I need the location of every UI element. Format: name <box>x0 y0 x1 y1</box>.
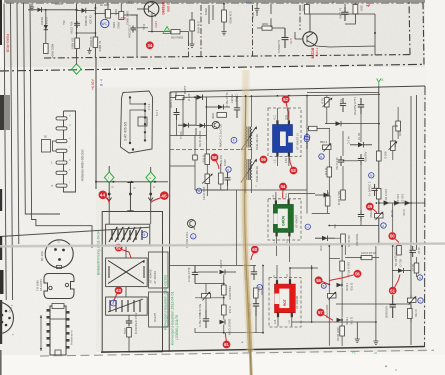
coil pins red <box>276 280 278 284</box>
tan stain halo <box>244 70 250 352</box>
wire v x223.8 <box>223 275 225 333</box>
wire v x392.7 <box>392 203 394 287</box>
scan edge mark 7 <box>0 350 2 375</box>
wire v x307 <box>306 96 308 191</box>
wire main h y97 <box>170 95 380 98</box>
resistor R705 <box>193 155 198 160</box>
red terminal 49 <box>366 203 374 211</box>
red terminal 60 <box>251 246 259 254</box>
potentiometer R702 <box>328 294 337 299</box>
wire h y258 left <box>329 258 340 260</box>
wire v x196 <box>195 97 197 135</box>
resistor R909b <box>190 20 195 31</box>
IC pins left <box>47 309 51 312</box>
wire bus line 2 <box>11 4 13 301</box>
diode D711 <box>324 193 330 198</box>
potentiometer R704 <box>408 298 417 303</box>
wire h y33 <box>77 32 96 34</box>
left module box <box>102 212 162 352</box>
blue point 8 <box>319 154 324 159</box>
dashed box green coil <box>268 199 301 240</box>
wire v x411 <box>410 96 412 345</box>
resistor R906 <box>93 37 98 48</box>
connector key notch <box>138 117 147 126</box>
diode D708b <box>220 320 226 325</box>
green warning triangle <box>163 27 171 34</box>
potentiometer R708b <box>375 214 384 219</box>
blue point 5 <box>142 232 148 238</box>
module left edge <box>168 92 171 352</box>
top partition chain x300 <box>299 5 301 30</box>
node dot x76 <box>76 32 78 34</box>
ground 3 <box>222 29 227 35</box>
connector pin 2 <box>56 127 67 130</box>
wire main vertical x96 <box>95 57 97 189</box>
resistor R706a <box>205 154 210 165</box>
wire v x311.7 <box>311 265 313 322</box>
IC top small outline <box>52 304 64 309</box>
capacitor C707 <box>358 210 364 221</box>
sub partition line <box>170 149 252 151</box>
connector pin 6 <box>56 171 67 174</box>
scan edge mark 4 <box>0 236 2 260</box>
dashed box red coil <box>269 278 301 328</box>
wire v x137 transistor down <box>137 15 138 57</box>
capacitor C713 <box>410 246 416 257</box>
wire red coil feeds <box>277 265 318 327</box>
wire h y213 right <box>312 213 330 215</box>
transformer TR2 coils <box>246 159 247 180</box>
red wire from 58 <box>216 161 219 169</box>
plug node R <box>149 193 152 196</box>
resistor R913 <box>353 5 358 15</box>
red wire from 60 <box>251 253 254 260</box>
ground symbol G2 <box>373 322 378 345</box>
transistor T903 BC238 <box>303 32 317 46</box>
blue point 10 <box>369 173 374 178</box>
middle column T <box>127 183 134 211</box>
variable inductor arrows <box>109 227 141 242</box>
coil ROT <box>275 284 296 313</box>
green diamond node L2 <box>104 172 114 183</box>
inner partition left column boxes <box>149 252 169 288</box>
resistor R911 horizontal <box>262 26 272 30</box>
wire cluster verticals <box>207 164 228 190</box>
capacitor C772 <box>340 98 346 112</box>
tan stain tail <box>250 350 251 375</box>
tan stain body <box>244 70 250 352</box>
top-left circuit: wire h y9.5 <box>28 9 77 11</box>
resistor R722 <box>396 121 401 131</box>
resistor R910 <box>222 10 227 22</box>
wire bus line 3 <box>17 4 19 245</box>
capacitor C769 <box>74 21 80 28</box>
wire subbox links <box>126 245 129 319</box>
ground symbol <box>30 4 34 10</box>
node dots module <box>328 202 330 204</box>
wire h mid top strip <box>131 15 149 28</box>
capacitor C738 electrolytic <box>253 296 259 316</box>
wire pins into box <box>109 212 151 225</box>
blue point Q <box>226 167 231 172</box>
inner partition left column box2 <box>149 292 169 327</box>
blue point N <box>417 275 422 280</box>
wire v x342 <box>341 246 343 346</box>
DIN connector partial left <box>0 302 14 334</box>
red wire from 57 <box>324 315 334 321</box>
capacitor C710 <box>338 156 344 166</box>
wire v x206 <box>205 97 207 140</box>
connector pin 3 <box>56 140 67 143</box>
diode D37 <box>395 201 401 206</box>
diode D707 <box>218 105 224 110</box>
paper specks bottom right <box>385 365 387 367</box>
diode D714 <box>337 318 343 323</box>
wire h y160 <box>343 160 358 162</box>
blue point F <box>231 137 237 143</box>
resistor R724 <box>325 196 330 206</box>
red wire from 49 <box>373 209 378 214</box>
wire h y190 long <box>195 189 307 191</box>
wire h y332.7 <box>195 316 263 333</box>
red wire from 55 <box>322 282 329 285</box>
potentiometer R504 <box>323 145 332 150</box>
node dot <box>76 9 78 11</box>
green node K <box>377 79 381 87</box>
wire to diamond <box>76 57 78 65</box>
wire h y135 <box>170 135 206 137</box>
coil pins green <box>275 200 277 204</box>
capacitor C709 electrolytic <box>390 295 396 318</box>
red wire from 53 <box>290 158 293 168</box>
top section outer right chain <box>423 0 424 65</box>
dimension arrow <box>40 315 42 351</box>
resistor R905 <box>171 30 180 34</box>
wire emitter right <box>310 14 375 55</box>
wire r724 <box>327 190 329 213</box>
transformer T712 <box>110 300 140 312</box>
wire v x416.5 <box>416 95 418 250</box>
transistor T901 <box>137 8 144 10</box>
wire h y128.5 <box>307 128 330 130</box>
plug node L <box>108 193 111 196</box>
blue point U <box>305 224 310 229</box>
svg-text:B - 4: B - 4 <box>100 79 104 86</box>
wire v x379 long <box>378 86 380 245</box>
resistor R719 <box>341 234 346 245</box>
top partition chain x252 <box>252 5 254 56</box>
red terminal 63 <box>115 287 123 295</box>
transistor T702 <box>188 220 196 228</box>
capacitor C777 <box>203 310 209 328</box>
resistor R903 <box>119 12 124 20</box>
wire top h <box>307 4 355 25</box>
wire h y322 <box>312 321 376 323</box>
red wire from 56 <box>330 275 355 281</box>
resistor R718a <box>222 305 227 315</box>
resistor R716 <box>340 261 345 271</box>
wire v x307 lower <box>306 190 308 214</box>
red terminal 57 <box>317 309 325 317</box>
wire pair x210 <box>209 5 213 24</box>
DIN connector C <box>45 240 73 268</box>
green diamond node L1 <box>146 172 156 183</box>
wire v x361 mid <box>360 186 362 226</box>
tuner sub-box 3 <box>106 297 148 315</box>
resistor R718b <box>254 288 259 298</box>
wire h y13 <box>95 14 137 16</box>
ground symbol G1 <box>355 322 360 343</box>
node dot <box>94 7 96 9</box>
ground 4 <box>255 5 260 12</box>
diode D901 <box>38 8 42 13</box>
top section paper tint <box>4 0 425 67</box>
resistor R718c <box>340 326 345 336</box>
coil pins <box>276 120 278 124</box>
wire h y265 <box>170 265 256 267</box>
connector pin 4 bracket <box>53 141 57 151</box>
blue point B <box>257 285 262 290</box>
resistor R912 <box>305 5 310 15</box>
resistor R709 <box>222 285 227 295</box>
blue point 7 <box>418 298 423 303</box>
outer dashed bottom border <box>40 350 434 356</box>
wire green coil feeds <box>276 192 315 262</box>
red wire from 51 <box>395 275 401 288</box>
capacitor C776 <box>234 97 240 119</box>
connector 3xAT outline <box>121 91 153 153</box>
module right edge <box>424 86 427 347</box>
resistor R721 <box>325 98 330 108</box>
red wire from 45 <box>151 198 161 203</box>
red wire from 61 <box>224 333 227 341</box>
blue point 4 <box>304 134 309 139</box>
capacitor C726 <box>174 108 180 120</box>
diode D36 <box>384 201 390 206</box>
capacitor C779 <box>192 266 198 284</box>
blue point 6b <box>321 283 326 288</box>
resistor R904 <box>44 44 49 54</box>
wire R909b <box>191 12 193 42</box>
red circle 34 <box>146 41 154 49</box>
diode D705b <box>220 270 226 275</box>
node dot x95 <box>95 32 97 34</box>
wire bus line 5 staircase <box>30 4 92 249</box>
wire h y225 <box>329 225 379 227</box>
transistor T701 <box>212 121 219 128</box>
wire v x329 <box>328 129 330 204</box>
red terminal 55 <box>315 276 323 284</box>
red terminal 44 <box>99 191 108 200</box>
red terminal 59 <box>260 156 268 164</box>
resistor R706c <box>408 309 413 319</box>
red terminal 45 <box>160 191 169 200</box>
resistor R720 <box>397 246 402 256</box>
resistor R714 <box>414 263 419 273</box>
red terminal 56 <box>354 270 362 278</box>
node dot <box>374 32 376 34</box>
wire h y304 <box>336 303 411 305</box>
diode D902 down <box>44 25 48 30</box>
scan fold line <box>0 244 445 247</box>
scan edge mark 5 <box>0 270 4 294</box>
wire v x76.5 <box>76 4 78 58</box>
diode D705 <box>197 95 203 100</box>
wire v x320 <box>326 95 328 124</box>
wire base left <box>295 32 303 39</box>
transformer X symbol <box>108 261 144 284</box>
capacitor C907 electrolytic <box>282 28 289 48</box>
diode D713 <box>337 283 343 288</box>
resistor R711 <box>341 190 346 200</box>
green diamond node A <box>72 64 81 74</box>
red wire from 44 <box>106 198 109 204</box>
dashed box blue coil <box>268 108 301 157</box>
IC package DIP <box>50 306 66 355</box>
transformer TR1 coils <box>246 127 247 148</box>
left column paper tint <box>0 67 96 355</box>
red terminal 51 <box>389 287 397 295</box>
blue test point WC <box>101 19 109 27</box>
top page border band <box>4 0 425 3</box>
wire coil feeds <box>277 108 289 166</box>
blue point 3 <box>304 136 309 141</box>
antenna connector box <box>64 111 76 192</box>
resistor R717 <box>127 328 132 338</box>
wire transformer stubs <box>246 96 252 193</box>
diode D903 <box>82 8 86 13</box>
wire bus line 1 <box>4 4 6 301</box>
resistor R713a <box>376 189 381 200</box>
wire v x195 upper <box>194 135 196 190</box>
red terminal 61 <box>223 341 231 349</box>
capacitor C780 <box>251 266 257 281</box>
bottom margin <box>0 355 445 375</box>
red wire from 50 <box>395 239 400 246</box>
diode D710 <box>358 142 364 147</box>
top partition chain x188 <box>188 40 190 56</box>
connector pins dots <box>129 96 131 98</box>
module main box top edge <box>170 86 425 92</box>
diode D706 <box>200 123 205 128</box>
red wire from 62 <box>122 250 132 258</box>
transformer TR2 arrow <box>241 160 256 183</box>
potentiometer R723 <box>391 141 396 151</box>
wire bus line 4 with corner <box>24 4 61 215</box>
wire h y16 <box>257 27 285 29</box>
red terminal 62 <box>115 244 123 252</box>
resistor R701 <box>309 126 318 130</box>
wire h y238 <box>335 238 345 255</box>
IC pins right <box>66 311 70 314</box>
wire v x263 <box>262 266 264 333</box>
connector pin 1 <box>56 117 67 120</box>
top section top chain <box>6 2 424 4</box>
module area paper tint <box>96 88 426 352</box>
scan edge mark 6 <box>0 300 2 344</box>
zener D704 <box>184 123 189 128</box>
capacitor C905 <box>342 7 349 21</box>
scan edge mark 1 <box>0 0 2 45</box>
resistor R715 <box>377 151 382 161</box>
page divider outer chain <box>0 64 424 71</box>
resistor R713h <box>361 256 372 260</box>
resistor R726 <box>176 96 185 100</box>
top partition chain x201 <box>200 5 202 56</box>
transformer TR1 arrow <box>241 127 256 150</box>
tuner sub-box 2 <box>106 258 148 287</box>
potentiometer R710 <box>202 294 211 299</box>
wire h y272 <box>198 271 218 273</box>
wire h y203 diodes <box>379 202 425 204</box>
tan stain core <box>245 95 251 350</box>
connector pin 7 <box>56 184 67 187</box>
wire r713 h <box>345 257 379 259</box>
module bottom edge <box>101 347 425 353</box>
left inner column small parts <box>175 92 178 136</box>
red terminal 58 <box>211 154 219 162</box>
wire v x183 <box>182 97 184 136</box>
wire h y91.5 <box>307 92 379 94</box>
wire v x236.5 <box>236 190 238 265</box>
blue point 6 <box>111 300 117 306</box>
coil GRUEN <box>273 204 293 232</box>
wire top strip stubs <box>108 1 271 27</box>
wire v x95.4 <box>94 4 96 58</box>
wire v x206 <box>195 284 224 311</box>
blue point 2a <box>381 223 386 228</box>
wire x206 down from box <box>205 140 208 196</box>
scan edge blob 2 <box>0 95 10 130</box>
capacitor C906a <box>131 26 137 33</box>
wire stubs right <box>411 257 417 322</box>
wire diamond stubs <box>109 166 151 212</box>
wire v x343 <box>343 114 361 192</box>
transistor T902 <box>144 2 159 17</box>
wire R910 <box>223 4 225 30</box>
diode D709 <box>336 121 342 126</box>
coil LY blue <box>273 125 293 153</box>
capacitor C771 electrolytic <box>358 98 364 114</box>
wire h y166 <box>170 165 195 167</box>
red terminal 50 <box>388 232 396 240</box>
wire transistor down <box>148 13 189 40</box>
red terminal 53 <box>290 167 298 175</box>
wire h y181.5 <box>96 181 168 183</box>
capacitor C711 <box>358 154 364 165</box>
junction dots extra <box>95 181 97 183</box>
capacitor C714 <box>371 184 377 196</box>
connector pin 5 <box>56 161 67 164</box>
wire h y123.6 <box>352 123 379 125</box>
wire v x329 <box>328 246 330 346</box>
transistor package TO-3 <box>44 274 74 299</box>
potentiometer R707 <box>205 174 210 184</box>
diode D703 <box>398 268 404 273</box>
wire v x45.8 <box>45 10 47 43</box>
resistor R702a <box>327 167 332 177</box>
red wire from 52 <box>286 103 288 120</box>
red wire from 54 <box>282 190 284 198</box>
resistor R708 <box>219 173 224 184</box>
resistor R904b <box>217 113 226 118</box>
red terminal 52 <box>282 96 290 104</box>
capacitor C712 <box>126 319 132 327</box>
ground 5 <box>190 42 195 47</box>
blue point 1 <box>191 234 196 239</box>
ground 2 <box>87 48 91 54</box>
top section inner right chain <box>409 0 410 55</box>
